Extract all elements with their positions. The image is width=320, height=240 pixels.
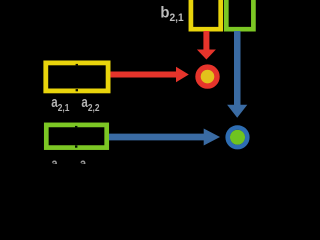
red arrow right from yellow rect [110, 67, 188, 82]
tick bottom of green rect [75, 146, 77, 148]
matrix B column bracket (yellow U) [191, 0, 221, 29]
blue arrow down from green bracket [227, 31, 247, 118]
red arrow down from yellow bracket [197, 31, 216, 60]
blue arrow right from green rect [109, 129, 220, 146]
matrix B column bracket (green U) [226, 0, 253, 29]
blue node ring [228, 128, 248, 148]
blue node (green core) [230, 130, 245, 145]
tick top of yellow rect [76, 64, 78, 66]
matrix A row box (yellow rectangle) [46, 63, 108, 91]
matrix A row box (green rectangle) [46, 125, 106, 148]
tick top of green rect [75, 126, 77, 128]
red node (yellow core) [200, 70, 214, 84]
tick bottom of yellow rect [76, 89, 78, 91]
red node ring [198, 67, 217, 86]
